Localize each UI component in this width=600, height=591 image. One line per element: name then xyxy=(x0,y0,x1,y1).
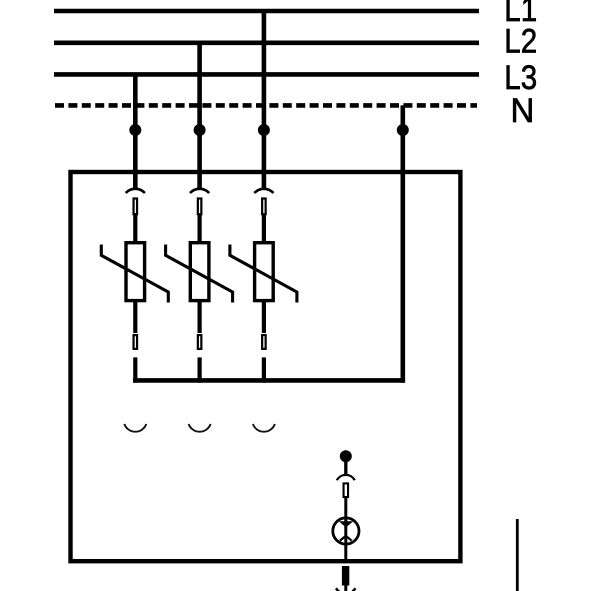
phase line L1 xyxy=(54,9,479,14)
disconnector arc branch 3 xyxy=(254,189,273,193)
junction dot branch 3 xyxy=(258,124,270,136)
earth arrow shaft xyxy=(342,566,349,586)
wire fuse to varistor branch 1 xyxy=(133,215,137,243)
wire fuse to varistor branch 3 xyxy=(262,215,266,243)
spark gap circle xyxy=(333,518,359,544)
enclosure box xyxy=(71,172,461,561)
spark gap upper electrode xyxy=(339,521,353,527)
junction dot branch 2 xyxy=(194,124,206,136)
varistor V2 diagonal stroke xyxy=(166,245,233,303)
wire varistor to lower fuse branch 1 xyxy=(133,302,137,333)
fuse spark gap branch xyxy=(344,483,349,497)
varistor V1 diagonal stroke xyxy=(101,245,168,303)
svg-text:N: N xyxy=(511,93,535,131)
wire varistor to lower fuse branch 2 xyxy=(198,302,202,333)
socket arc 3 xyxy=(253,424,275,432)
neutral line N (dashed) xyxy=(55,103,477,108)
upper fuse branch 3 xyxy=(262,199,266,215)
socket arc 2 xyxy=(189,424,211,432)
svg-text:L3: L3 xyxy=(504,58,537,96)
wire from L1 to branch 3 input xyxy=(262,11,267,188)
wire to bus branch 2 xyxy=(198,357,202,382)
junction dot branch 1 xyxy=(129,124,141,136)
upper fuse branch 1 xyxy=(134,199,138,215)
wire fuse to varistor branch 2 xyxy=(198,215,202,243)
wire to bus branch 3 xyxy=(262,357,266,382)
varistor V3 body xyxy=(255,243,274,301)
PE conductor line xyxy=(516,519,519,591)
wire from N to internal bus xyxy=(400,105,405,382)
lower fuse branch 2 xyxy=(198,335,202,349)
phase line L2 xyxy=(54,40,479,45)
disconnector arc branch 1 xyxy=(126,189,145,193)
varistor V1 body xyxy=(126,243,145,301)
lower fuse branch 3 xyxy=(262,335,266,349)
terminal dot spark gap branch xyxy=(340,450,352,462)
earth arrow barb right xyxy=(350,588,355,591)
spark gap lower electrode xyxy=(340,536,352,541)
wire varistor to lower fuse branch 3 xyxy=(262,302,266,333)
varistor V2 body xyxy=(190,243,209,301)
varistor V3 diagonal stroke xyxy=(230,245,297,303)
wire to bus branch 1 xyxy=(133,357,137,382)
disconnector arc spark gap branch xyxy=(337,475,355,480)
socket arc 1 xyxy=(124,424,146,432)
upper fuse branch 2 xyxy=(198,199,202,215)
wire from L2 to branch 2 input xyxy=(197,43,202,188)
earth arrow tail wire xyxy=(344,584,347,591)
svg-text:L2: L2 xyxy=(504,21,537,59)
internal bus wire xyxy=(133,378,405,383)
lower fuse branch 1 xyxy=(134,335,138,349)
wire from L3 to branch 1 input xyxy=(133,74,138,188)
earth arrow barb left xyxy=(336,588,341,591)
wire dot to disconnector spark gap branch xyxy=(344,456,347,475)
junction dot on N wire xyxy=(397,124,409,136)
wire fuse to spark gap xyxy=(344,498,347,562)
disconnector arc branch 2 xyxy=(190,189,209,193)
phase line L3 xyxy=(54,72,479,77)
